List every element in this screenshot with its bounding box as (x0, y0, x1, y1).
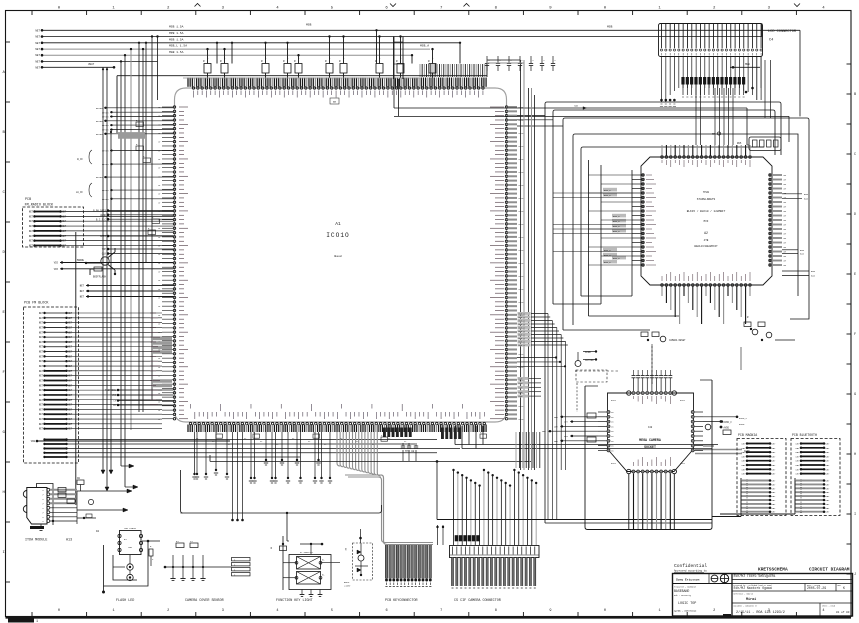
svg-text:NET: NET (772, 487, 777, 490)
wires connector to IC left pins (76, 107, 174, 407)
IC U1 IC010 pins (117, 64, 524, 432)
svg-text:NET: NET (68, 379, 73, 382)
svg-text:B_IF: B_IF (77, 158, 83, 161)
connector J6 CS CIF camera (436, 469, 539, 603)
svg-text:NET: NET (39, 399, 44, 402)
svg-text:NET: NET (29, 220, 34, 223)
transistors Q3 Q4 camera reset (575, 316, 795, 386)
svg-text:NET: NET (68, 389, 73, 392)
svg-text:NETNM: NETNM (96, 107, 103, 110)
svg-text:DATA: DATA (100, 235, 106, 238)
svg-text:3: 3 (222, 609, 224, 613)
svg-text:AVLD: AVLD (611, 462, 617, 465)
svg-text:AVDD: AVDD (739, 423, 745, 426)
svg-text:KRETSSCHEMA: KRETSSCHEMA (758, 567, 788, 573)
svg-text:NET: NET (542, 430, 547, 433)
svg-text:0: 0 (604, 609, 606, 613)
module A13 ITDA (23, 477, 132, 543)
svg-text:MX3: MX3 (704, 220, 709, 223)
svg-text:PCB KEYCONNECTOR: PCB KEYCONNECTOR (385, 599, 418, 603)
svg-text:NET: NET (68, 341, 73, 344)
svg-text:NET: NET (68, 331, 73, 334)
svg-text:Approved by - Godkänd av (Avd: Approved by - Godkänd av (Avd nr namn) (734, 573, 775, 576)
lamp block function key light (271, 536, 340, 603)
IC A2 stacked memory (553, 132, 816, 324)
svg-text:TP80: TP80 (703, 191, 710, 194)
svg-text:NET: NET (29, 235, 34, 238)
svg-text:AVLD: AVLD (680, 462, 686, 465)
svg-text:NET: NET (826, 455, 831, 458)
svg-text:NET: NET (796, 451, 801, 454)
LED D4 flash led block (96, 527, 160, 603)
svg-text:Mirai: Mirai (746, 597, 756, 602)
svg-text:NET: NET (29, 225, 34, 228)
svg-text:NET: NET (68, 399, 73, 402)
svg-text:NET: NET (39, 336, 44, 339)
svg-text:NET: NET (826, 483, 831, 486)
svg-text:NET: NET (796, 447, 801, 450)
svg-text:ITDA MODULE: ITDA MODULE (25, 539, 47, 543)
svg-text:NET: NET (772, 511, 777, 514)
svg-text:NET: NET (68, 384, 73, 387)
svg-text:NET: NET (68, 423, 73, 426)
wire loops around IC A2 (545, 102, 809, 523)
svg-text:MGB: MGB (306, 24, 312, 27)
svg-text:NET: NET (62, 225, 67, 228)
title block (673, 563, 853, 616)
svg-text:NET5: NET5 (519, 288, 525, 291)
svg-text:6: 6 (386, 609, 388, 613)
svg-text:NET: NET (39, 389, 44, 392)
svg-text:NET: NET (39, 394, 44, 397)
svg-text:NET: NET (35, 48, 40, 51)
svg-text:MGB_A: MGB_A (420, 44, 429, 47)
svg-text:NET: NET (826, 507, 831, 510)
svg-text:NET: NET (826, 468, 831, 471)
svg-text:J: J (854, 573, 856, 577)
svg-text:MGB_L 1.5A: MGB_L 1.5A (169, 45, 187, 48)
svg-text:Sheet - Blad: Sheet - Blad (822, 606, 835, 608)
svg-text:E: E (854, 273, 856, 277)
svg-text:NET: NET (826, 473, 831, 476)
svg-text:NET: NET (39, 379, 44, 382)
svg-text:BU5: BU5 (811, 270, 816, 273)
svg-text:Dok - Ansvarig: Dok - Ansvarig (674, 594, 692, 597)
svg-text:MPB 1.5A: MPB 1.5A (169, 32, 184, 35)
svg-text:SOCKET: SOCKET (644, 445, 656, 449)
svg-text:NET5: NET5 (519, 405, 525, 408)
svg-text:1: 1 (659, 609, 661, 613)
svg-text:LED: LED (128, 546, 133, 549)
transistor Q1 bootflash (77, 248, 116, 279)
svg-text:NET: NET (39, 312, 44, 315)
svg-text:Approved according to: Approved according to (674, 569, 707, 573)
svg-text:NET: NET (772, 491, 777, 494)
svg-text:NET: NET (68, 394, 73, 397)
connector C4 LCD (659, 24, 797, 107)
svg-text:AVLD: AVLD (680, 399, 686, 402)
svg-text:BU5: BU5 (804, 197, 809, 200)
svg-text:NET: NET (39, 413, 44, 416)
svg-text:BU5: BU5 (800, 253, 805, 256)
svg-text:NET: NET (68, 408, 73, 411)
svg-text:NET: NET (796, 455, 801, 458)
svg-text:NET: NET (35, 36, 40, 39)
svg-text:CS CIF CAMERA CONNECTOR: CS CIF CAMERA CONNECTOR (454, 599, 501, 603)
svg-text:4: 4 (822, 609, 824, 613)
wires IC right pin band (517, 312, 568, 520)
svg-text:NET: NET (742, 455, 747, 458)
svg-text:AVDD_C: AVDD_C (739, 417, 748, 420)
svg-text:NET: NET (39, 331, 44, 334)
svg-text:8: 8 (495, 609, 497, 613)
resistors R above IC top pins (203, 29, 461, 453)
socket C40 mega camera (542, 370, 748, 529)
svg-text:NET: NET (35, 54, 40, 57)
svg-text:NET: NET (772, 464, 777, 467)
svg-text:VIO: VIO (112, 394, 117, 397)
svg-text:A1: A1 (335, 221, 341, 227)
svg-text:BGA143/BGA8MXIT: BGA143/BGA8MXIT (694, 244, 718, 248)
svg-text:NET: NET (39, 370, 44, 373)
svg-text:L8_IF: L8_IF (76, 191, 84, 194)
svg-text:NETNM: NETNM (102, 198, 109, 201)
svg-text:B_PA_DATA: B_PA_DATA (93, 210, 106, 213)
svg-text:LOGIC TOP: LOGIC TOP (678, 602, 696, 606)
svg-text:B_C_S_C: B_C_S_C (96, 218, 107, 221)
svg-text:PCB FM BLOCK: PCB FM BLOCK (24, 302, 49, 306)
svg-text:LED TORCH: LED TORCH (124, 527, 137, 530)
svg-text:BU5: BU5 (811, 275, 816, 278)
svg-text:NET: NET (62, 220, 67, 223)
svg-text:NET: NET (742, 468, 747, 471)
svg-text:NET: NET (68, 346, 73, 349)
svg-text:NET: NET (772, 460, 777, 463)
svg-text:VBAT: VBAT (88, 63, 95, 66)
svg-text:BU5: BU5 (804, 193, 809, 196)
svg-text:Date - Datum: Date - Datum (807, 585, 820, 587)
svg-text:NET5: NET5 (519, 249, 525, 252)
svg-text:NET: NET (772, 507, 777, 510)
svg-text:NET: NET (826, 480, 831, 483)
svg-text:2: 2 (167, 609, 169, 613)
svg-text:BU5_D: BU5_D (613, 215, 620, 218)
svg-text:K: K (843, 586, 845, 590)
svg-text:NETNM: NETNM (102, 111, 109, 114)
svg-text:MGB: MGB (607, 26, 613, 29)
svg-text:NET: NET (39, 375, 44, 378)
svg-text:9: 9 (549, 609, 551, 613)
svg-text:NET: NET (772, 499, 777, 502)
svg-text:PCB: PCB (25, 198, 31, 202)
svg-text:NET: NET (62, 230, 67, 233)
svg-text:NETNM: NETNM (102, 189, 109, 192)
svg-text:NET: NET (742, 451, 747, 454)
svg-text:NET: NET (68, 336, 73, 339)
svg-text:NETNM: NETNM (96, 120, 103, 123)
svg-text:NET: NET (826, 511, 831, 514)
svg-text:BU5_D: BU5_D (519, 344, 526, 347)
svg-text:NET: NET (29, 211, 34, 214)
connector J5 PCB keyconnector (337, 432, 433, 603)
svg-text:NET: NET (68, 360, 73, 363)
svg-text:NET: NET (772, 480, 777, 483)
svg-text:NET: NET (39, 384, 44, 387)
svg-text:NET: NET (796, 464, 801, 467)
svg-text:AGND: AGND (100, 214, 106, 217)
svg-text:NET: NET (68, 317, 73, 320)
svg-text:NET: NET (742, 460, 747, 463)
svg-text:VIO: VIO (54, 268, 59, 271)
svg-text:NET: NET (796, 460, 801, 463)
svg-text:NET: NET (68, 365, 73, 368)
svg-text:NET: NET (68, 413, 73, 416)
svg-text:NET: NET (772, 495, 777, 498)
svg-text:NET: NET (35, 60, 40, 63)
svg-text:BU5_D: BU5_D (613, 225, 620, 228)
transistor Q5 backlight (344, 529, 373, 587)
svg-text:NET: NET (35, 29, 40, 32)
svg-text:CLK: CLK (102, 253, 107, 256)
svg-text:NET: NET (826, 464, 831, 467)
svg-text:NET5: NET5 (519, 353, 525, 356)
svg-text:NET5: NET5 (519, 301, 525, 304)
svg-text:NET: NET (796, 443, 801, 446)
svg-text:NETNM: NETNM (102, 116, 109, 119)
svg-text:NET5: NET5 (519, 184, 525, 187)
svg-text:I: I (3, 551, 5, 555)
svg-text:NET: NET (554, 440, 559, 443)
svg-text:NET: NET (772, 483, 777, 486)
svg-text:NET: NET (35, 42, 40, 45)
svg-text:BU5: BU5 (800, 249, 805, 252)
svg-text:4: 4 (276, 609, 278, 613)
svg-text:NET: NET (826, 487, 831, 490)
svg-text:A13: A13 (66, 539, 72, 543)
svg-text:NET5: NET5 (519, 236, 525, 239)
svg-text:NET: NET (826, 447, 831, 450)
svg-text:NETNM: NETNM (102, 150, 109, 153)
wire bus left verticals (54, 35, 174, 491)
sensor block camera cover (164, 540, 250, 603)
connector J1 PCB FM_RADIO BLOCK (23, 198, 174, 505)
svg-text:NET: NET (826, 460, 831, 463)
svg-text:AVDD: AVDD (724, 427, 730, 430)
svg-text:NET5: NET5 (519, 223, 525, 226)
svg-text:NET: NET (68, 322, 73, 325)
svg-text:NET: NET (68, 312, 73, 315)
svg-text:BU5_D: BU5_D (604, 189, 611, 192)
svg-text:NET: NET (62, 244, 67, 247)
svg-text:AVLD: AVLD (611, 399, 617, 402)
svg-text:Språk - Reference: Språk - Reference (674, 610, 697, 613)
svg-text:D: D (854, 213, 856, 217)
svg-text:PCB BLUETOOTH: PCB BLUETOOTH (792, 433, 817, 437)
svg-text:PCB MAGNIA: PCB MAGNIA (738, 433, 757, 437)
svg-text:MEGA CAMERA: MEGA CAMERA (639, 438, 661, 442)
svg-text:NET: NET (772, 447, 777, 450)
svg-text:2/15/11 - ROA 128 1293/2: 2/15/11 - ROA 128 1293/2 (736, 610, 785, 615)
svg-text:D4: D4 (96, 530, 100, 533)
svg-text:NET: NET (68, 355, 73, 358)
svg-text:NET: NET (826, 495, 831, 498)
svg-text:NET: NET (772, 503, 777, 506)
svg-text:NET: NET (62, 240, 67, 243)
svg-text:NET: NET (39, 326, 44, 329)
svg-text:NET: NET (772, 451, 777, 454)
svg-text:5: 5 (331, 609, 333, 613)
svg-text:NET5: NET5 (519, 106, 525, 109)
svg-text:TP: TP (333, 101, 337, 104)
svg-text:BASEBAND: BASEBAND (674, 589, 689, 593)
svg-text:F: F (854, 333, 856, 337)
svg-text:NET: NET (554, 416, 559, 419)
wire bus right verticals (487, 60, 535, 470)
svg-text:NET5: NET5 (519, 119, 525, 122)
svg-text:NET: NET (68, 326, 73, 329)
svg-text:NET: NET (796, 473, 801, 476)
svg-text:Document - Dokument nr: Document - Dokument nr (734, 606, 758, 608)
connector J2 PCB FM BLOCK (23, 302, 460, 464)
svg-text:NETNM: NETNM (102, 124, 109, 127)
svg-text:CAMERA COVER SENSOR: CAMERA COVER SENSOR (185, 599, 224, 603)
svg-text:NETNM: NETNM (96, 133, 103, 136)
svg-text:NET: NET (68, 404, 73, 407)
svg-text:MGB: MGB (745, 63, 750, 66)
svg-text:NET: NET (564, 435, 569, 438)
svg-text:NET5: NET5 (519, 171, 525, 174)
svg-text:Confidential: Confidential (674, 563, 707, 569)
svg-text:Prepared by - Utfärdad (Avd nr: Prepared by - Utfärdad (Avd nr namn) (734, 584, 773, 587)
svg-text:NET: NET (826, 503, 831, 506)
svg-text:CAMERA RESET: CAMERA RESET (669, 339, 686, 342)
svg-text:BU5_D: BU5_D (604, 261, 611, 264)
svg-text:NETNM: NETNM (102, 129, 109, 132)
svg-text:NET: NET (39, 365, 44, 368)
svg-text:NET5: NET5 (519, 210, 525, 213)
svg-text:NET: NET (564, 421, 569, 424)
svg-text:A2: A2 (704, 231, 708, 235)
svg-text:NET: NET (68, 370, 73, 373)
svg-text:NET: NET (68, 351, 73, 354)
svg-text:LIGHT: LIGHT (344, 584, 351, 587)
svg-text:BU5_D: BU5_D (613, 230, 620, 233)
svg-text:H: H (854, 453, 856, 457)
svg-text:NET: NET (742, 464, 747, 467)
svg-text:NET: NET (29, 215, 34, 218)
svg-text:NET: NET (772, 473, 777, 476)
svg-text:TXP: TXP (102, 248, 107, 251)
svg-text:NET: NET (39, 341, 44, 344)
svg-text:BU5_D: BU5_D (604, 194, 611, 197)
svg-text:NET: NET (772, 468, 777, 471)
svg-text:NET5: NET5 (519, 158, 525, 161)
svg-text:MGB: MGB (574, 105, 579, 108)
svg-text:NETNM: NETNM (102, 163, 109, 166)
svg-text:NET: NET (772, 455, 777, 458)
svg-text:NET: NET (39, 355, 44, 358)
svg-text:0: 0 (58, 609, 60, 613)
svg-text:BU5_D: BU5_D (613, 257, 620, 260)
svg-text:NET: NET (80, 296, 85, 299)
svg-text:NET: NET (39, 322, 44, 325)
wire loop mega camera (585, 380, 712, 530)
svg-text:AVDD_C: AVDD_C (724, 421, 733, 424)
svg-text:G: G (854, 393, 856, 397)
svg-text:4TB: 4TB (704, 239, 709, 242)
svg-text:NET: NET (80, 284, 85, 287)
svg-text:NET: NET (826, 443, 831, 446)
svg-text:ICO1O: ICO1O (326, 232, 350, 239)
svg-text:NET: NET (29, 240, 34, 243)
svg-text:I: I (854, 513, 856, 517)
svg-text:C4: C4 (769, 39, 773, 43)
svg-text:NET5: NET5 (519, 275, 525, 278)
svg-text:NET: NET (68, 375, 73, 378)
svg-text:NET: NET (29, 244, 34, 247)
svg-text:NET: NET (29, 230, 34, 233)
svg-text:Sony Ericsson: Sony Ericsson (676, 578, 700, 582)
svg-text:7: 7 (440, 609, 442, 613)
svg-text:VIO: VIO (54, 262, 59, 265)
svg-text:NET: NET (62, 215, 67, 218)
svg-text:R05: R05 (737, 142, 742, 145)
svg-text:C40: C40 (648, 426, 653, 429)
svg-text:FLASH LED: FLASH LED (116, 599, 134, 603)
svg-text:STAPELKRETS: STAPELKRETS (697, 198, 716, 201)
svg-text:NET: NET (35, 66, 40, 69)
svg-text:NET: NET (39, 408, 44, 411)
svg-text:BU5_D: BU5_D (604, 254, 611, 257)
svg-text:Baud: Baud (334, 254, 341, 258)
svg-text:NET: NET (826, 491, 831, 494)
svg-text:CIRCUIT DIAGRAM: CIRCUIT DIAGRAM (809, 567, 850, 573)
svg-text:NET: NET (39, 418, 44, 421)
svg-text:1: 1 (113, 609, 115, 613)
svg-text:TESTMODE: TESTMODE (105, 389, 117, 392)
svg-text:MGB 1.5A: MGB 1.5A (169, 38, 184, 41)
svg-text:LCD CONNECTOR: LCD CONNECTOR (768, 30, 797, 34)
svg-text:MARRE: MARRE (77, 259, 85, 262)
svg-text:VIB: VIB (31, 440, 36, 443)
svg-text:Reference - Rubrik: Reference - Rubrik (734, 594, 753, 596)
connector J8 PCB MAGNIA and J9 PCB BLUETOOTH (720, 420, 840, 515)
svg-text:NET: NET (39, 360, 44, 363)
svg-text:MGB 1.5A: MGB 1.5A (169, 51, 184, 54)
svg-text:NET: NET (68, 418, 73, 421)
svg-text:NET: NET (554, 425, 559, 428)
svg-text:NET: NET (39, 346, 44, 349)
svg-text:NET: NET (742, 443, 747, 446)
svg-text:NET: NET (796, 468, 801, 471)
wire net bottom area (181, 426, 796, 541)
svg-text:NETNM: NETNM (96, 176, 103, 179)
svg-text:NET: NET (826, 451, 831, 454)
svg-text:01 of 03: 01 of 03 (836, 610, 850, 614)
svg-text:NET5: NET5 (519, 145, 525, 148)
svg-text:NET: NET (39, 423, 44, 426)
svg-text:NET: NET (62, 235, 67, 238)
svg-text:NET: NET (39, 428, 44, 431)
capacitors row top right (485, 56, 557, 71)
svg-text:NET5: NET5 (519, 197, 525, 200)
svg-text:NET: NET (68, 428, 73, 431)
svg-text:NET5: NET5 (519, 262, 525, 265)
svg-text:BOOTFLASH: BOOTFLASH (93, 276, 106, 279)
svg-text:NET: NET (39, 351, 44, 354)
svg-text:2: 2 (713, 609, 715, 613)
svg-text:NET: NET (39, 404, 44, 407)
